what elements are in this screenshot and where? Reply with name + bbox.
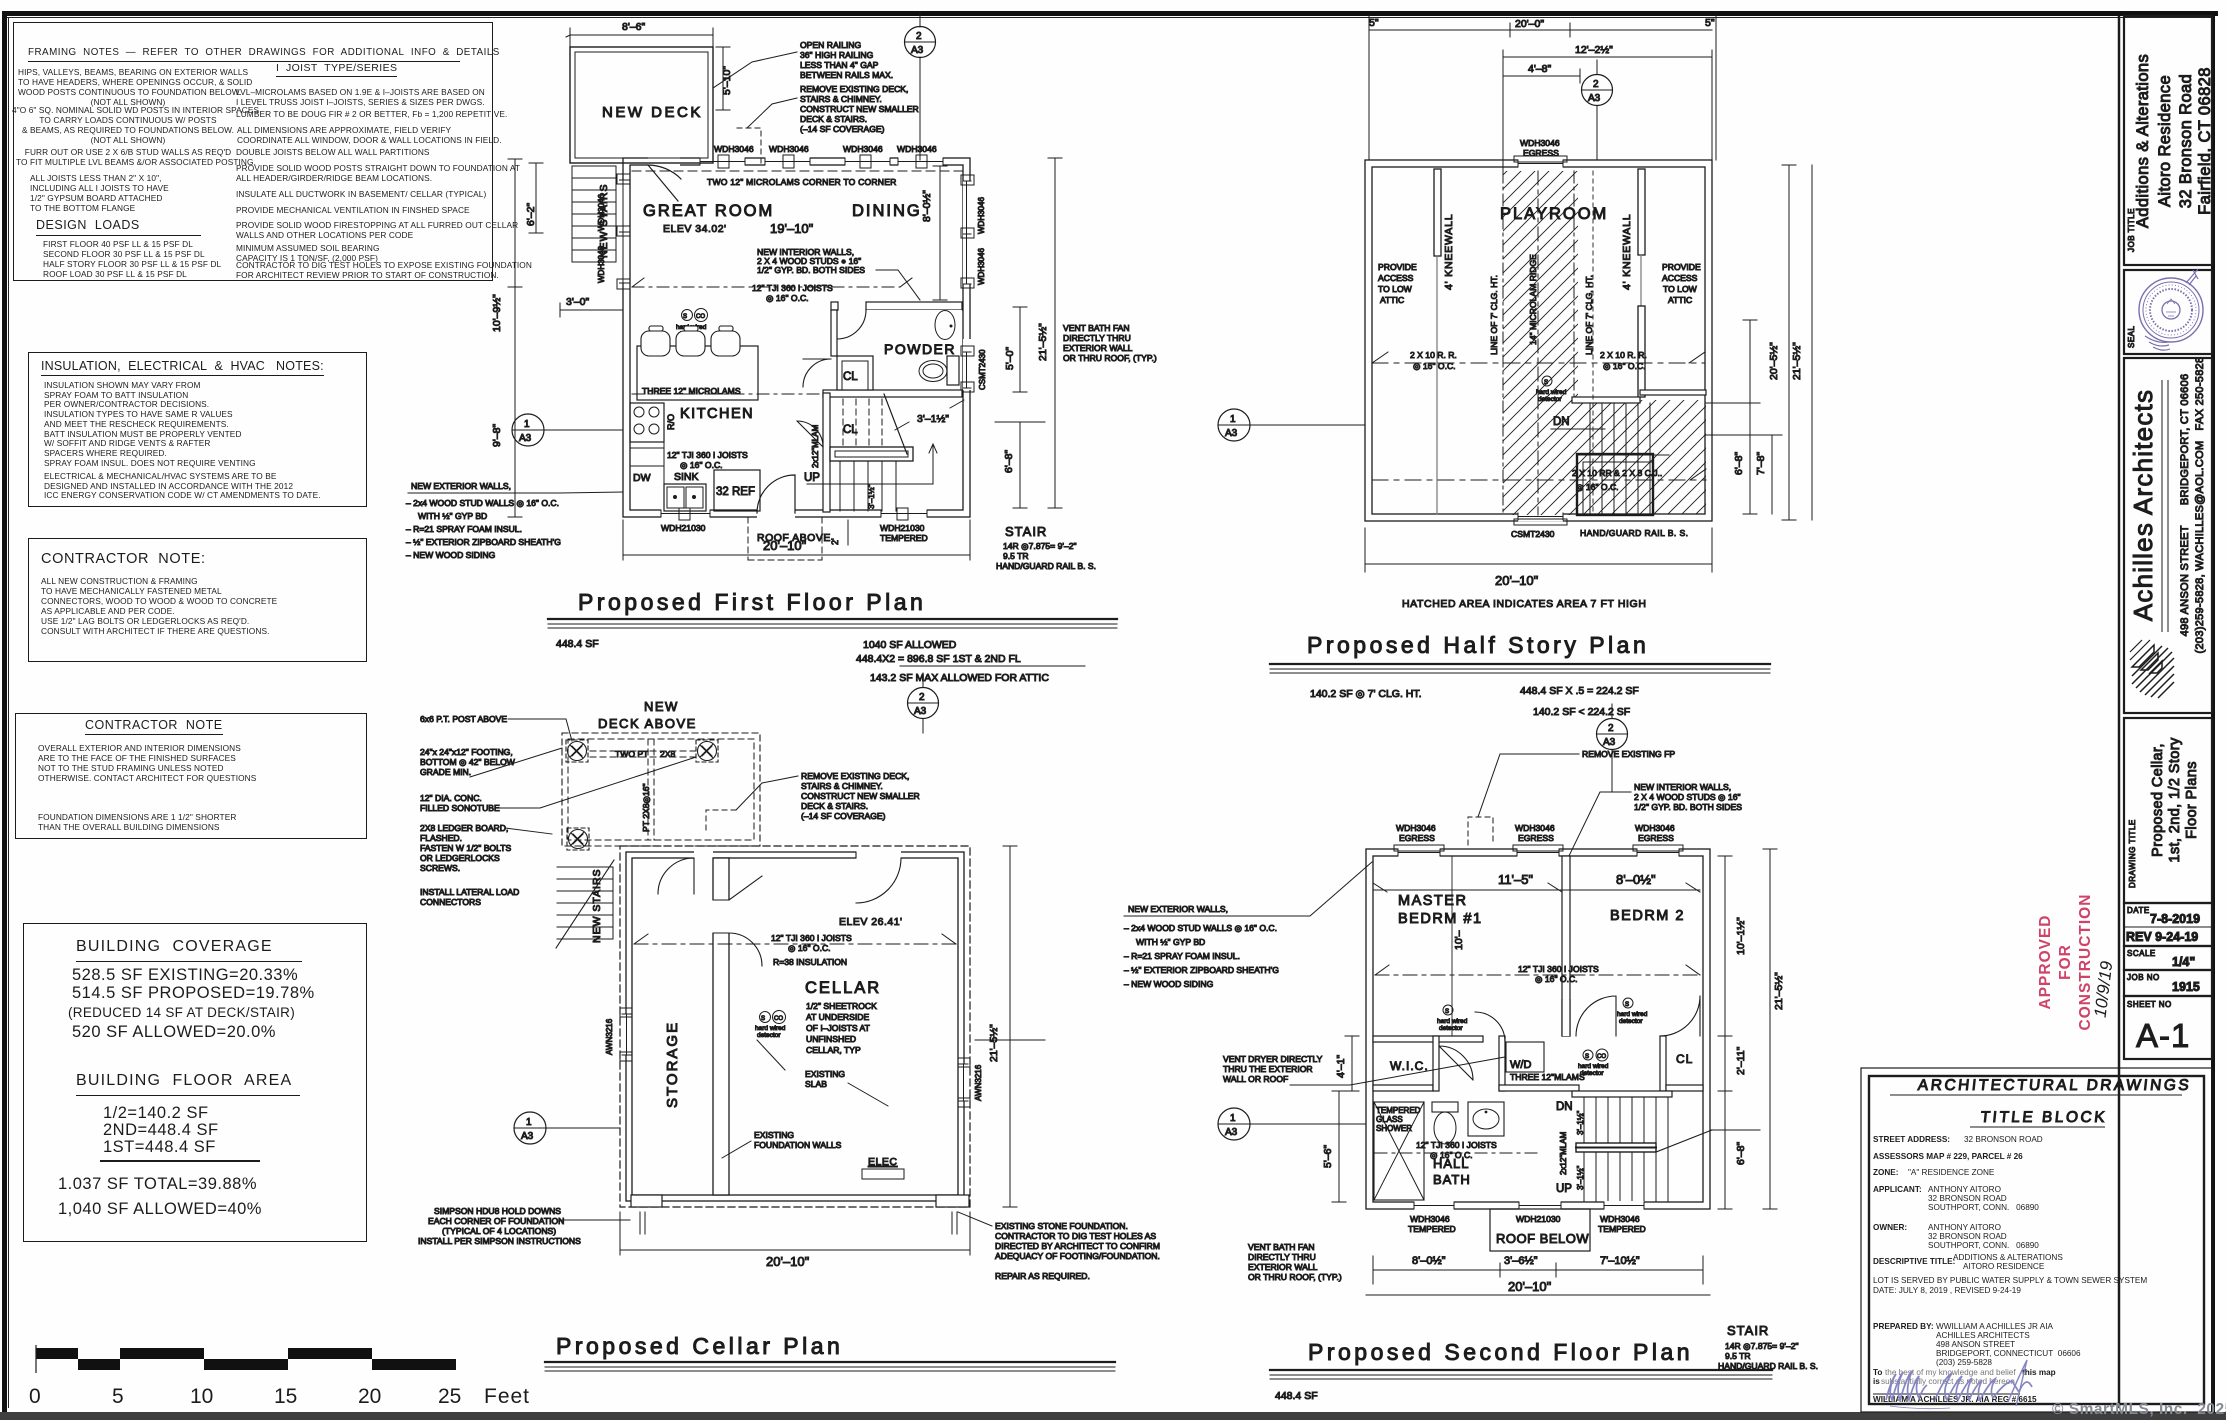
dashed corner beam line: [632, 170, 962, 172]
sheet outer frame left: [2, 11, 7, 1413]
deck above dashed outline: [562, 733, 760, 846]
stair diagonal rail: [884, 394, 907, 454]
svg-text:A-1: A-1: [2136, 1017, 2190, 1054]
achilles architects box: [2124, 358, 2212, 713]
cellar foundation walls double line: [626, 852, 964, 1201]
bedroom door arcs: [1576, 996, 1616, 1036]
section circle 1/A3 second floor: [1218, 1108, 1250, 1140]
left dims second floor: [1345, 1036, 1359, 1091]
job title box: [2124, 16, 2212, 265]
framing notes left column: [18, 68, 238, 108]
half story bottom window gap: [1518, 512, 1563, 522]
hold down ticks: [640, 1212, 957, 1234]
half story right dims: [1743, 320, 1757, 514]
dim 20'-10 bottom: [623, 520, 970, 560]
hall bath fixtures: [1374, 1102, 1424, 1200]
achilles logo hatch: [2130, 640, 2174, 698]
stair mid rail: [1576, 1143, 1656, 1152]
svg-text:SHEET NO: SHEET NO: [2127, 1000, 2172, 1009]
wic walls: [1499, 1036, 1505, 1091]
signature blue: [1886, 1360, 2032, 1409]
svg-text:ADDITIONS & ALTERATIONS: ADDITIONS & ALTERATIONS: [1953, 1253, 2063, 1262]
svg-text:AITORO RESIDENCE: AITORO RESIDENCE: [1963, 1262, 2045, 1271]
contractor note box 1: [28, 538, 367, 662]
architect seal stamp: [2139, 269, 2203, 350]
i joist type/series heading: [276, 62, 397, 77]
svg-text:498 ANSON STREET: 498 ANSON STREET: [1936, 1340, 2015, 1349]
svg-text:32 BRONSON ROAD: 32 BRONSON ROAD: [1928, 1194, 2007, 1203]
joist dashed line second floor: [1375, 974, 1700, 976]
building coverage box: [23, 923, 367, 1242]
svg-text:LOT IS SERVED BY PUBLIC WATER: LOT IS SERVED BY PUBLIC WATER SUPPLY & T…: [1873, 1276, 2147, 1285]
chimney dashed box top: [1468, 817, 1493, 845]
svg-text:1915: 1915: [2172, 980, 2200, 994]
hs detector: [1542, 376, 1552, 386]
dashed chimney box cellar: [706, 810, 736, 834]
footing circle top right: [696, 740, 718, 762]
seal box: [2124, 270, 2212, 354]
svg-text:32 BRONSON ROAD: 32 BRONSON ROAD: [1964, 1135, 2043, 1144]
svg-text:To: To: [1873, 1368, 1882, 1377]
svg-text:DATE: DATE: [2127, 906, 2150, 915]
first floor plan exterior walls: [623, 158, 970, 517]
center ridge dashed vertical: [1537, 171, 1539, 515]
deck stairs left of house: [572, 166, 616, 262]
cellar new stairs treads: [557, 867, 613, 939]
storage door gap top: [694, 851, 713, 860]
top dims second floor: [1373, 883, 1700, 897]
co detectors center: [1583, 1050, 1593, 1060]
section circle 1/A3 half story: [1218, 409, 1250, 441]
powder room top wall: [831, 302, 962, 310]
cl1 door arc: [803, 359, 831, 387]
sheet inner frame thin line top: [7, 17, 2213, 18]
svg-text:© SmartMLS, Inc. 2025: © SmartMLS, Inc. 2025: [2052, 1401, 2226, 1418]
kitchen dashed mlam line: [632, 393, 823, 395]
svg-text:WILLIAM A ACHILLES JR. AIA REG: WILLIAM A ACHILLES JR. AIA REG # 6615: [1873, 1395, 2037, 1404]
stairs second floor: [1572, 1091, 1672, 1097]
hall door arc kitchen side: [797, 421, 823, 447]
architectural drawings title block outer: [1861, 1068, 2212, 1412]
second floor top wall windows: [1398, 848, 1679, 857]
svg-text:Additions & Alterations: Additions & Alterations: [2134, 54, 2152, 228]
interior wall door gap: [712, 900, 730, 933]
job no box: [2124, 970, 2212, 996]
title block heading: [1980, 1109, 2108, 1126]
interior hallway walls horizontal: [1373, 1036, 1483, 1042]
roof above dashed outline: [748, 517, 822, 560]
left kneewall: [1434, 169, 1441, 256]
cellar interior chimney wall: [713, 858, 729, 1195]
sheet outer frame right: [2211, 11, 2215, 1413]
dim 6'-2: [529, 163, 543, 233]
cellar detectors: [760, 1012, 771, 1023]
section circle 2/A3 top: [905, 27, 936, 58]
joist dashed line mid: [632, 286, 900, 288]
stair handrail box: [830, 447, 913, 461]
design loads heading: [36, 218, 201, 236]
svg-text:this map: this map: [2022, 1368, 2056, 1377]
svg-text:ZONE:: ZONE:: [1873, 1168, 1898, 1177]
footing circle lower: [567, 828, 589, 850]
svg-text:5: 5: [112, 1385, 124, 1408]
svg-text:ASSESSORS MAP # 229, PARCEL #: ASSESSORS MAP # 229, PARCEL # 26: [1873, 1152, 2023, 1161]
framing notes right column: [236, 88, 486, 107]
svg-text:"A" RESIDENCE ZONE: "A" RESIDENCE ZONE: [1908, 1168, 1995, 1177]
stair inner guard box: [1577, 454, 1653, 515]
svg-text:STREET ADDRESS:: STREET ADDRESS:: [1873, 1135, 1950, 1144]
svg-text:Floor Plans: Floor Plans: [2184, 761, 2200, 839]
kitchen island counter: [637, 346, 758, 400]
section circle 1/A3 cellar: [514, 1112, 546, 1144]
right dims second floor: [1718, 856, 1732, 1036]
first floor left wall windows: [619, 180, 628, 283]
half story top dims: [1369, 15, 1716, 45]
insulation electrical hvac notes box: [28, 352, 367, 507]
smoke co detectors: [682, 310, 693, 321]
section circle 2/A3 second floor: [1597, 719, 1628, 750]
svg-text:Fairfield, CT 06828: Fairfield, CT 06828: [2196, 67, 2214, 215]
svg-text:TITLE BLOCK: TITLE BLOCK: [1980, 1109, 2108, 1126]
svg-text:15: 15: [274, 1385, 297, 1408]
svg-text:ARCHITECTURAL DRAWINGS: ARCHITECTURAL DRAWINGS: [1917, 1077, 2192, 1094]
svg-text:DRAWING TITLE: DRAWING TITLE: [2128, 819, 2137, 888]
cellar right dim 21'-5.5: [975, 846, 1045, 1207]
bottom dims second floor: [1373, 1256, 1703, 1284]
svg-text:SOUTHPORT, CONN. 06890: SOUTHPORT, CONN. 06890: [1928, 1241, 2039, 1250]
playroom hatched band: [1490, 0, 1890, 1196]
half story exterior walls: [1365, 160, 1712, 521]
half story interior walls stair area: [1572, 397, 1640, 403]
cellar foundation dashed outer line: [620, 846, 970, 1207]
left vertical dims 10'-9 and 9'-8: [508, 159, 522, 517]
svg-text:Aitoro Residence: Aitoro Residence: [2156, 75, 2174, 207]
right kneewall: [1638, 169, 1645, 255]
sheet outer frame bottom: [0, 1412, 2226, 1420]
stools: [641, 326, 740, 356]
stair left wall: [823, 393, 830, 512]
first floor right wall windows: [963, 181, 972, 390]
right outside dims: [1013, 307, 1027, 392]
svg-text:JOB NO: JOB NO: [2127, 973, 2160, 982]
half story top window gap: [1518, 159, 1563, 169]
svg-text:10/9/19: 10/9/19: [2091, 959, 2117, 1018]
svg-text:PREPARED BY:: PREPARED BY:: [1873, 1322, 1934, 1331]
roof below box: [1490, 1209, 1590, 1251]
powder door gap and arc: [838, 301, 866, 311]
date box: [2124, 903, 2212, 946]
cellar bottom dim 20'-10: [620, 1212, 970, 1255]
up arrow: [807, 444, 937, 484]
second floor exterior walls: [1366, 849, 1710, 1209]
first floor entry door top-left with leaf: [648, 165, 681, 201]
contractor note box 2: [15, 713, 367, 839]
svg-text:498 ANSON STREET BRIDGEPO: 498 ANSON STREET BRIDGEPORT, CT 06606: [2179, 374, 2191, 637]
sheet no box: [2124, 996, 2212, 1059]
half story bottom dim: [1365, 528, 1712, 572]
section circle 2/A3 below first floor: [908, 688, 939, 719]
svg-text:DATE: JULY 8, 2019 , REVISED 9: DATE: JULY 8, 2019 , REVISED 9-24-19: [1873, 1286, 2021, 1295]
svg-text:SEAL: SEAL: [2127, 325, 2136, 348]
powder sink: [935, 311, 955, 340]
powder toilet: [947, 356, 959, 385]
bottom windows second floor: [1414, 1201, 1644, 1210]
svg-text:WWILLIAM A ACHILLES JR AIA: WWILLIAM A ACHILLES JR AIA: [1936, 1322, 2053, 1331]
cellar entry door arc: [856, 858, 901, 903]
section circle 1/A3 first floor: [512, 414, 544, 446]
first floor bottom wall windows and door: [661, 509, 927, 518]
svg-text:REV 9-24-19: REV 9-24-19: [2126, 930, 2198, 944]
cl walls second floor: [1660, 1036, 1666, 1091]
cl1 closet: [831, 310, 837, 356]
stair lower treads: [840, 461, 896, 511]
svg-text:APPROVED: APPROVED: [2037, 915, 2054, 1010]
footing circle top left: [566, 740, 588, 762]
drawing title box: [2124, 718, 2212, 903]
cellar left wall window: [622, 1014, 631, 1055]
svg-text:Achilles Architects: Achilles Architects: [2128, 389, 2158, 621]
svg-text:ANTHONY AITORO: ANTHONY AITORO: [1928, 1223, 2001, 1232]
powder bottom wall: [823, 390, 962, 397]
new deck double outline: [570, 47, 713, 163]
architectural drawings heading: [1917, 1077, 2192, 1094]
extension lines top corners: [1369, 45, 1716, 171]
sink second floor: [1468, 1102, 1504, 1136]
stair treads half story: [1590, 403, 1650, 515]
svg-text:DESCRIPTIVE TITLE:: DESCRIPTIVE TITLE:: [1873, 1257, 1955, 1266]
svg-text:ANTHONY AITORO: ANTHONY AITORO: [1928, 1185, 2001, 1194]
foundation piers bottom: [631, 1195, 662, 1207]
cellar joist dashed line: [634, 943, 956, 945]
cellar top wall door gap: [856, 851, 901, 860]
deck joist dashed lines: [590, 739, 700, 840]
dim 8'-6" deck: [566, 28, 713, 47]
dim 3'-0: [560, 303, 623, 317]
svg-text:SCALE: SCALE: [2127, 949, 2156, 958]
svg-text:1/4": 1/4": [2172, 955, 2195, 969]
detectors second floor: [1443, 1005, 1453, 1015]
svg-text:(203)259-5828, WACHILLES@AOL.C: (203)259-5828, WACHILLES@AOL.COM FAX 250…: [2194, 357, 2206, 654]
svg-text:FOR: FOR: [2057, 944, 2074, 980]
sheet outer frame top: [2, 11, 2218, 16]
32 ref box: [714, 470, 760, 511]
dashed chimney box: [737, 128, 761, 163]
storage door arc: [658, 858, 694, 894]
title double underline: [2162, 380, 2168, 632]
svg-text:APPLICANT:: APPLICANT:: [1873, 1185, 1922, 1194]
toilet second floor: [1432, 1102, 1458, 1112]
svg-text:32 Bronson Road: 32 Bronson Road: [2177, 74, 2195, 208]
svg-text:Proposed Cellar,: Proposed Cellar,: [2150, 743, 2166, 857]
sidebar separator vertical line: [2118, 16, 2121, 1408]
svg-text:10: 10: [190, 1385, 213, 1408]
corner tick marks joist line: [632, 278, 912, 287]
section circle 2/A3 half story: [1582, 75, 1613, 106]
approved for construction stamp: [2037, 894, 2094, 1031]
scale bar: [36, 1348, 456, 1370]
svg-text:0: 0: [29, 1385, 41, 1408]
svg-text:1st, 2nd, 1/2 Story: 1st, 2nd, 1/2 Story: [2167, 737, 2183, 863]
playroom hatch band edges dash-dot: [1503, 171, 1574, 515]
title block rows: [1873, 1135, 2147, 1404]
svg-text:ACHILLES ARCHITECTS: ACHILLES ARCHITECTS: [1936, 1331, 2030, 1340]
svg-text:BRIDGEPORT, CONNECTICUT 06606: BRIDGEPORT, CONNECTICUT 06606: [1936, 1349, 2081, 1358]
dim 8'-0.5 rotated inside dining: [933, 166, 947, 300]
first floor top wall window gaps: [648, 157, 943, 166]
bottom door leaf and arc: [757, 475, 795, 513]
svg-text:20: 20: [358, 1385, 381, 1408]
kitchen range: [630, 403, 664, 442]
wic door arc: [1439, 1046, 1473, 1080]
leader to interior wall: [876, 270, 920, 300]
rafter dashed line: [1372, 362, 1705, 364]
svg-text:Feet: Feet: [484, 1385, 530, 1408]
svg-text:SOUTHPORT, CONN. 06890: SOUTHPORT, CONN. 06890: [1928, 1203, 2039, 1212]
bedroom divider wall: [1562, 856, 1570, 1036]
scale box: [2124, 946, 2212, 970]
svg-text:OWNER:: OWNER:: [1873, 1223, 1907, 1232]
scale bar numbers: [29, 1385, 530, 1408]
framing notes box: [13, 22, 493, 281]
stair upper treads dashed: [843, 399, 882, 446]
svg-text:25: 25: [438, 1385, 461, 1408]
cellar right wall window: [959, 1064, 968, 1101]
sheet inner frame thin line left: [8, 17, 9, 1408]
svg-text:32 BRONSON ROAD: 32 BRONSON ROAD: [1928, 1232, 2007, 1241]
svg-text:is: is: [1873, 1377, 1880, 1386]
svg-text:7-8-2019: 7-8-2019: [2150, 912, 2200, 926]
svg-text:(203) 259-5828: (203) 259-5828: [1936, 1358, 1992, 1367]
dim 5'-10: [716, 47, 730, 110]
